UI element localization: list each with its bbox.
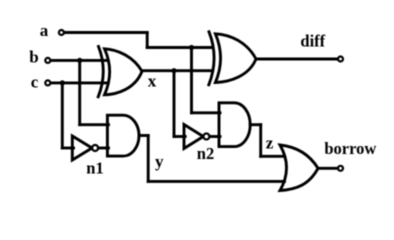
svg-text:c: c (31, 73, 39, 92)
wire c branch horizontal into inverter n1 input (62, 147, 73, 150)
wire z horizontal into OR U5 top input (261, 155, 284, 158)
inverter n2 bubble (203, 134, 209, 140)
wire a branch horizontal into AND U4 top input (192, 111, 221, 114)
junction dot on wire b (77, 58, 82, 63)
wire a vertical step down (146, 33, 149, 48)
junction dot on wire c (60, 80, 65, 85)
wire x branch horizontal into inverter n2 input (174, 135, 185, 138)
wire b branch horizontal into AND U3 top input (80, 123, 109, 126)
and gate U3 body (inputs b,n1 output y) (107, 115, 139, 156)
and gate U4 body (inputs a,n2 output z) (219, 103, 250, 147)
wire x branch vertical down to inverter n2 (173, 71, 176, 137)
xor gate U2 lead-in arc (209, 32, 214, 85)
inverter n1 bubble (92, 145, 98, 151)
input terminal a (59, 30, 64, 35)
wire diff from XOR U2 output to output terminal (256, 58, 337, 61)
wire c horizontal into XOR U1 bottom input (51, 81, 107, 84)
svg-text:n1: n1 (86, 159, 103, 178)
wire AND U4 output horizontal (250, 123, 261, 126)
wire a to XOR U2 top input (147, 46, 211, 49)
xor gate U1 body (inputs b,c output x) (105, 49, 143, 95)
wire AND U3 output vertical down (147, 136, 150, 182)
xor gate U2 body (inputs a,x output diff) (215, 34, 256, 83)
xor gate U1 lead-in arc (98, 47, 103, 97)
wire b branch vertical down to AND U3 (78, 60, 81, 124)
wire AND U3 output horizontal (139, 134, 148, 137)
wire b horizontal into XOR U1 top input (51, 59, 107, 62)
input terminal c (45, 80, 50, 85)
svg-text:a: a (40, 21, 49, 40)
wire c branch vertical down to inverter n1 (61, 83, 64, 148)
wire x from XOR U1 output to XOR U2 bottom input (142, 69, 212, 72)
wire AND U4 output vertical down (z) (259, 125, 262, 157)
wire y horizontal to OR U5 bottom input (148, 180, 284, 183)
svg-text:y: y (155, 152, 164, 171)
or gate U5 body (inputs z,y output borrow) (280, 145, 318, 191)
wire a branch vertical down to AND U4 (190, 48, 193, 113)
wire borrow from OR U5 output to output terminal (318, 167, 337, 170)
inverter n1 triangle (72, 136, 92, 160)
svg-text:borrow: borrow (324, 139, 376, 158)
svg-text:z: z (266, 134, 274, 153)
junction dot on wire a (189, 45, 194, 50)
output terminal diff (338, 57, 343, 62)
svg-text:diff: diff (300, 32, 325, 51)
svg-text:n2: n2 (197, 144, 214, 163)
junction dot on wire x (171, 68, 176, 73)
svg-text:b: b (29, 48, 38, 67)
wire a horizontal from input a (65, 31, 148, 34)
wire inverter n2 output to AND U4 bottom input (210, 135, 221, 138)
input terminal b (45, 58, 50, 63)
inverter n2 triangle (184, 125, 203, 149)
wire inverter n1 output to AND U3 bottom input (98, 147, 108, 150)
svg-text:x: x (148, 72, 157, 91)
output terminal borrow (338, 166, 343, 171)
